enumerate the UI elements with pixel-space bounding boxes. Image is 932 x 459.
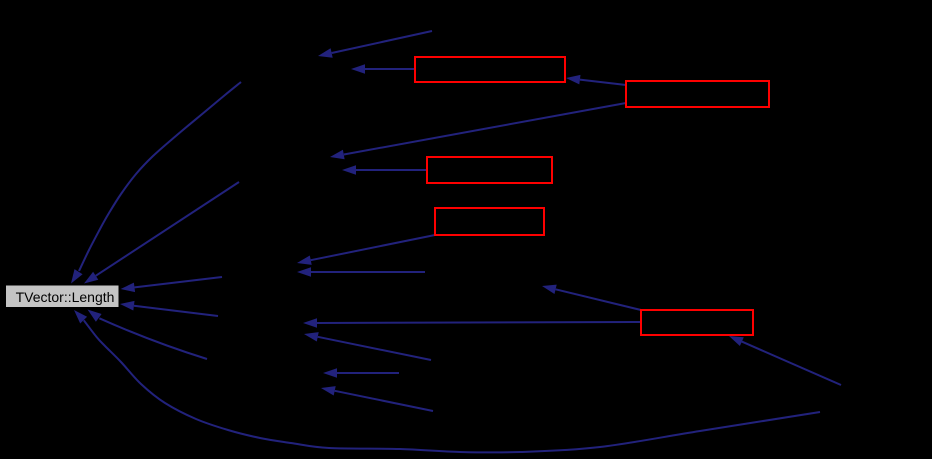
node: red box 3 (truncated caller) bbox=[427, 157, 552, 183]
edge: hidden caller -> TVector::Length (bottom short, slight curve) bbox=[88, 310, 208, 360]
edge: red box 2 -> red box 1 bbox=[566, 75, 626, 85]
edge: red box 5 -> hidden node (long horizontal) bbox=[303, 318, 641, 328]
node: red box 1 (truncated caller) bbox=[415, 57, 565, 82]
node: red box 5 (truncated caller) bbox=[641, 310, 753, 335]
node: red box 4 (truncated caller) bbox=[435, 208, 544, 235]
edge: hidden caller -> hidden node (short horizontal) bbox=[323, 368, 399, 378]
edge: red box 5 -> hidden node (upper left) bbox=[542, 285, 641, 310]
edge: hidden caller -> hidden node (lower diagonal) bbox=[321, 386, 433, 411]
edge: red box 1 -> hidden node bbox=[351, 64, 415, 74]
edge: hidden caller -> hidden node (center) bbox=[297, 267, 425, 277]
node: TVector::Length (current function, gray) bbox=[6, 285, 120, 308]
edge: red box 4 -> hidden node bbox=[297, 235, 435, 265]
svg-text:TVector::Length: TVector::Length bbox=[16, 289, 115, 305]
node: red box 2 (truncated caller) bbox=[626, 81, 769, 107]
edge: hidden caller -> TVector::Length (long left curve) bbox=[71, 82, 241, 284]
edge: hidden caller -> TVector::Length (right lower) bbox=[120, 301, 218, 316]
edge: hidden caller -> TVector::Length (right upper) bbox=[121, 277, 222, 292]
edge: red box 3 -> hidden node bbox=[342, 165, 427, 175]
edge: hidden caller -> TVector::Length (upper diagonal) bbox=[84, 182, 239, 284]
edge: red box 2 -> hidden node (middle) bbox=[330, 103, 626, 159]
edge: hidden caller -> hidden node (diagonal) bbox=[304, 332, 431, 360]
edge: hidden caller -> hidden node (top) bbox=[318, 31, 432, 58]
edge: hidden caller -> red box 5 bbox=[729, 336, 841, 385]
edge: hidden caller -> TVector::Length (long bottom arc) bbox=[74, 310, 820, 452]
